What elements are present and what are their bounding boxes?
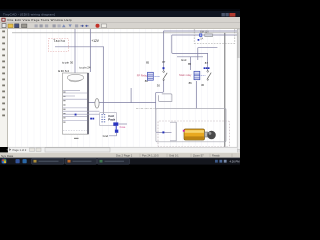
svg-text:FP Relay: FP Relay	[137, 74, 148, 78]
svg-text:Doc 2 Page 1: Doc 2 Page 1	[116, 154, 133, 158]
svg-text:Ready: Ready	[212, 154, 220, 158]
svg-text:to pin 30: to pin 30	[62, 60, 73, 64]
svg-text:TinyCAD - [EDIS wiring diagram: TinyCAD - [EDIS wiring diagram]	[3, 13, 55, 17]
svg-text:30: 30	[157, 84, 161, 88]
svg-text:85: 85	[188, 62, 192, 66]
svg-text:Tacho: Tacho	[53, 39, 65, 43]
svg-text:Page 1 of 2: Page 1 of 2	[13, 148, 27, 152]
svg-text:5A: 5A	[200, 38, 203, 41]
svg-text:4:26 PM: 4:26 PM	[230, 160, 241, 164]
svg-text:86: 86	[189, 81, 193, 85]
svg-text:Pos 24.1,10.5: Pos 24.1,10.5	[142, 154, 159, 158]
svg-text:Sys Data: Sys Data	[1, 154, 14, 158]
svg-text:Gnd: Gnd	[103, 134, 109, 138]
svg-text:87: 87	[205, 61, 209, 65]
svg-text:Zoom 57: Zoom 57	[193, 154, 204, 158]
svg-text:Pack: Pack	[108, 117, 115, 121]
svg-text:Fuse: Fuse	[120, 125, 126, 129]
svg-text:File Edit View Page Tools: File Edit View Page Tools Window Help	[8, 18, 72, 22]
svg-text:+12V: +12V	[91, 39, 99, 43]
svg-text:Grid 0.1: Grid 0.1	[169, 154, 179, 158]
svg-text:to pin 24: to pin 24	[79, 65, 90, 69]
svg-text:87: 87	[162, 60, 166, 64]
svg-text:EM 12V: EM 12V	[200, 30, 209, 33]
svg-text:EDIS4: EDIS4	[58, 69, 69, 73]
svg-text:Gnd: Gnd	[181, 58, 187, 62]
svg-text:Main relay: Main relay	[179, 73, 192, 77]
svg-text:30: 30	[201, 83, 205, 87]
svg-text:85: 85	[146, 61, 150, 65]
